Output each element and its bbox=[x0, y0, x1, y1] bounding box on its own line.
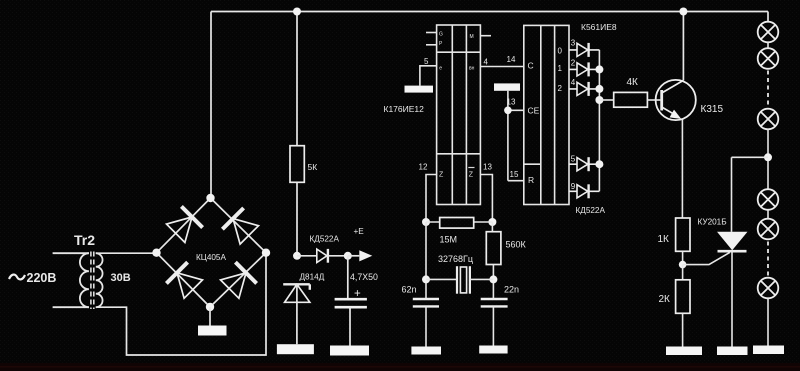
bottom photo edge strip bbox=[0, 363, 800, 371]
svg-text:К561ИЕ8: К561ИЕ8 bbox=[581, 22, 617, 32]
ground 2K bbox=[666, 347, 702, 356]
svg-text:15: 15 bbox=[510, 170, 519, 179]
svg-text:13: 13 bbox=[507, 98, 516, 107]
wire 1K to node bbox=[682, 251, 684, 264]
ground lamps bbox=[753, 346, 784, 355]
diode KD522A bbox=[317, 249, 328, 263]
bridge rectifier KC405A edges bbox=[157, 198, 267, 307]
resistor 1K bbox=[676, 218, 690, 251]
svg-text:1К: 1К bbox=[658, 234, 670, 245]
diode output pin5 bbox=[569, 157, 600, 171]
diode bridge bottom-left bbox=[166, 262, 202, 298]
wire rail to 4K bbox=[599, 99, 613, 101]
node crystal right bbox=[489, 275, 497, 283]
svg-text:5: 5 bbox=[571, 155, 576, 164]
diode bridge bottom-right bbox=[221, 262, 257, 298]
svg-text:12: 12 bbox=[419, 163, 428, 172]
wire 5K branch upper bbox=[296, 12, 298, 146]
svg-text:5: 5 bbox=[424, 57, 429, 66]
ground bridge bbox=[198, 326, 227, 336]
node osc left top bbox=[422, 218, 430, 226]
lamp L5 bbox=[758, 219, 779, 240]
svg-text:e: e bbox=[439, 66, 442, 72]
node bridge bottom bbox=[206, 303, 214, 311]
op-amp U2 K561IE8 box bbox=[524, 25, 569, 204]
resistor 5K bbox=[290, 146, 304, 183]
svg-text:КУ201Б: КУ201Б bbox=[698, 218, 727, 227]
wire dashed L2-L3 bbox=[767, 71, 769, 108]
node CE junction bbox=[504, 107, 512, 115]
svg-text:C: C bbox=[528, 61, 534, 71]
wire left vertical rail to bridge top bbox=[210, 12, 212, 199]
svg-text:560К: 560К bbox=[506, 240, 527, 250]
svg-text:Д814Д: Д814Д bbox=[300, 273, 325, 282]
svg-text:0: 0 bbox=[558, 47, 563, 56]
node rail j4 bbox=[595, 160, 603, 168]
pin stub top-left 1 bbox=[426, 32, 437, 34]
wire dashed L5-L6 bbox=[767, 242, 769, 277]
svg-text:КД522А: КД522А bbox=[310, 235, 340, 244]
wire top rail bbox=[211, 11, 768, 13]
svg-text:К315: К315 bbox=[701, 104, 724, 115]
svg-text:4: 4 bbox=[484, 58, 489, 67]
svg-text:КД522А: КД522А bbox=[576, 206, 606, 215]
svg-text:2К: 2К bbox=[659, 294, 671, 305]
node +E junction bbox=[344, 252, 352, 260]
ground capacitor bbox=[330, 346, 369, 356]
pin 5 wire to ground bar bbox=[420, 66, 437, 86]
wire L3 to node bbox=[767, 129, 769, 189]
ground zener bbox=[277, 344, 314, 354]
resistor 2K bbox=[682, 265, 684, 280]
ground CE/R bar bbox=[494, 83, 520, 90]
capacitor 22n bbox=[481, 299, 508, 306]
transformer core bbox=[91, 252, 94, 310]
ground 62n bbox=[411, 347, 441, 355]
wire diode to +E node bbox=[328, 255, 348, 257]
lamp L6 bbox=[758, 278, 779, 299]
svg-text:2: 2 bbox=[558, 84, 563, 93]
transformer Tr2 primary winding bbox=[53, 253, 89, 307]
svg-text:M: M bbox=[470, 34, 474, 40]
svg-text:13: 13 bbox=[483, 163, 492, 172]
ground 22n bbox=[479, 346, 507, 354]
node gate junction bbox=[679, 261, 687, 269]
svg-text:К176ИЕ12: К176ИЕ12 bbox=[384, 104, 425, 114]
svg-text:Z: Z bbox=[469, 172, 474, 179]
zener D814D bbox=[283, 284, 310, 302]
svg-text:30В: 30В bbox=[111, 272, 131, 284]
svg-text:+: + bbox=[354, 288, 361, 300]
svg-text:2: 2 bbox=[571, 59, 576, 68]
net +E arrow bbox=[359, 250, 372, 261]
node crystal left bbox=[422, 275, 430, 283]
node B rail-collector junction bbox=[679, 8, 687, 16]
wire secondary bottom loop to bridge right node bbox=[96, 253, 266, 355]
lamp L1 bbox=[758, 22, 779, 43]
diode bridge top-right bbox=[222, 208, 258, 244]
node rail j1 bbox=[595, 65, 603, 73]
node A rail-5K junction bbox=[293, 8, 301, 16]
svg-text:+Е: +Е bbox=[354, 227, 365, 236]
node lamp tap bbox=[764, 153, 772, 161]
wire osc left rail bbox=[425, 222, 427, 299]
diode output pin2 bbox=[569, 62, 600, 76]
svg-text:3: 3 bbox=[571, 38, 576, 47]
wire L6 to ground bbox=[767, 298, 769, 345]
svg-text:Z: Z bbox=[439, 172, 444, 179]
svg-text:Tr2: Tr2 bbox=[74, 232, 95, 248]
svg-text:62n: 62n bbox=[402, 285, 417, 295]
wire secondary top to bridge left node bbox=[96, 252, 157, 254]
pin 12 Z wire bbox=[426, 175, 437, 223]
node rail j3 bbox=[595, 96, 603, 104]
wire diode OR rail bbox=[598, 50, 600, 191]
svg-text:5К: 5К bbox=[308, 162, 318, 172]
svg-text:CE: CE bbox=[528, 106, 540, 116]
transistor Q1 K315 bbox=[656, 80, 696, 120]
label ~220B mains bbox=[9, 275, 25, 280]
svg-text:4,7Х50: 4,7Х50 bbox=[350, 272, 378, 282]
svg-text:9: 9 bbox=[571, 182, 576, 191]
svg-text:32768Гц: 32768Гц bbox=[438, 254, 473, 264]
node +E input junction bbox=[293, 252, 301, 260]
svg-text:220В: 220В bbox=[27, 271, 57, 285]
op-amp U1 K176IE12 box bbox=[437, 25, 481, 205]
svg-text:R: R bbox=[528, 175, 534, 185]
svg-text:4: 4 bbox=[571, 78, 576, 87]
wire gate bbox=[683, 252, 730, 264]
node bridge left bbox=[152, 249, 160, 257]
pin 13 Zbar wire bbox=[480, 175, 492, 223]
wire 4K to base bbox=[647, 99, 660, 101]
wire 2K to ground bbox=[682, 313, 684, 346]
diode bridge top-left bbox=[167, 206, 203, 242]
lamp L3 bbox=[758, 109, 779, 130]
svg-text:вн: вн bbox=[469, 66, 475, 72]
wire to +E arrow bbox=[348, 255, 360, 257]
transformer Tr2 secondary winding bbox=[96, 253, 103, 307]
resistor 4K bbox=[614, 92, 648, 107]
wire rail to lamp chain bbox=[767, 12, 769, 22]
wire pin 4 to C pin14 bbox=[480, 66, 523, 68]
svg-text:4К: 4К bbox=[627, 77, 639, 88]
lamp L4 bbox=[758, 189, 779, 210]
wire node to KD522A bbox=[297, 255, 317, 257]
wire bridge bottom to ground bbox=[209, 307, 211, 326]
node bridge right bbox=[262, 249, 270, 257]
wire CE pin13 bbox=[508, 109, 524, 111]
svg-text:14: 14 bbox=[507, 55, 516, 64]
wire cap to ground bbox=[349, 307, 351, 345]
diode output pin4 bbox=[569, 82, 600, 96]
wire emitter down bbox=[681, 120, 683, 219]
capacitor 62n bbox=[413, 299, 439, 306]
node osc right top bbox=[488, 218, 496, 226]
resistor 560K bbox=[491, 222, 493, 232]
pin stub top-left 2 bbox=[426, 44, 437, 46]
ground thyristor bbox=[717, 347, 748, 356]
lamp L2 bbox=[758, 48, 779, 69]
wire 5K branch lower bbox=[296, 182, 298, 256]
wire collector vertical bbox=[682, 12, 684, 81]
capacitor 4,7x50 bbox=[347, 256, 349, 299]
ground pin5 bar bbox=[405, 86, 434, 93]
svg-text:22n: 22n bbox=[504, 285, 519, 295]
svg-text:G: G bbox=[439, 32, 443, 38]
diode output pin3 bbox=[569, 43, 600, 57]
node bridge top bbox=[206, 194, 214, 202]
crystal 32768Hz bbox=[426, 278, 457, 280]
wire zener to ground bbox=[296, 284, 298, 344]
wire 22n to ground bbox=[492, 306, 494, 345]
diode output pin9 bbox=[569, 184, 600, 198]
resistor 15M bbox=[426, 221, 492, 223]
svg-text:15М: 15М bbox=[440, 235, 458, 245]
pin stub top-right bbox=[480, 35, 491, 37]
svg-text:КЦ405А: КЦ405А bbox=[196, 253, 226, 262]
wire R pin15 bbox=[508, 180, 524, 182]
wire L4-L5 bbox=[767, 210, 769, 219]
wire CE/R ground rail bbox=[507, 91, 509, 181]
svg-text:1: 1 bbox=[558, 64, 563, 73]
wire node to thyristor bbox=[732, 156, 769, 158]
wire L1-L2 bbox=[767, 42, 769, 48]
wire 62n to ground bbox=[425, 306, 427, 346]
node rail j2 bbox=[595, 85, 603, 93]
